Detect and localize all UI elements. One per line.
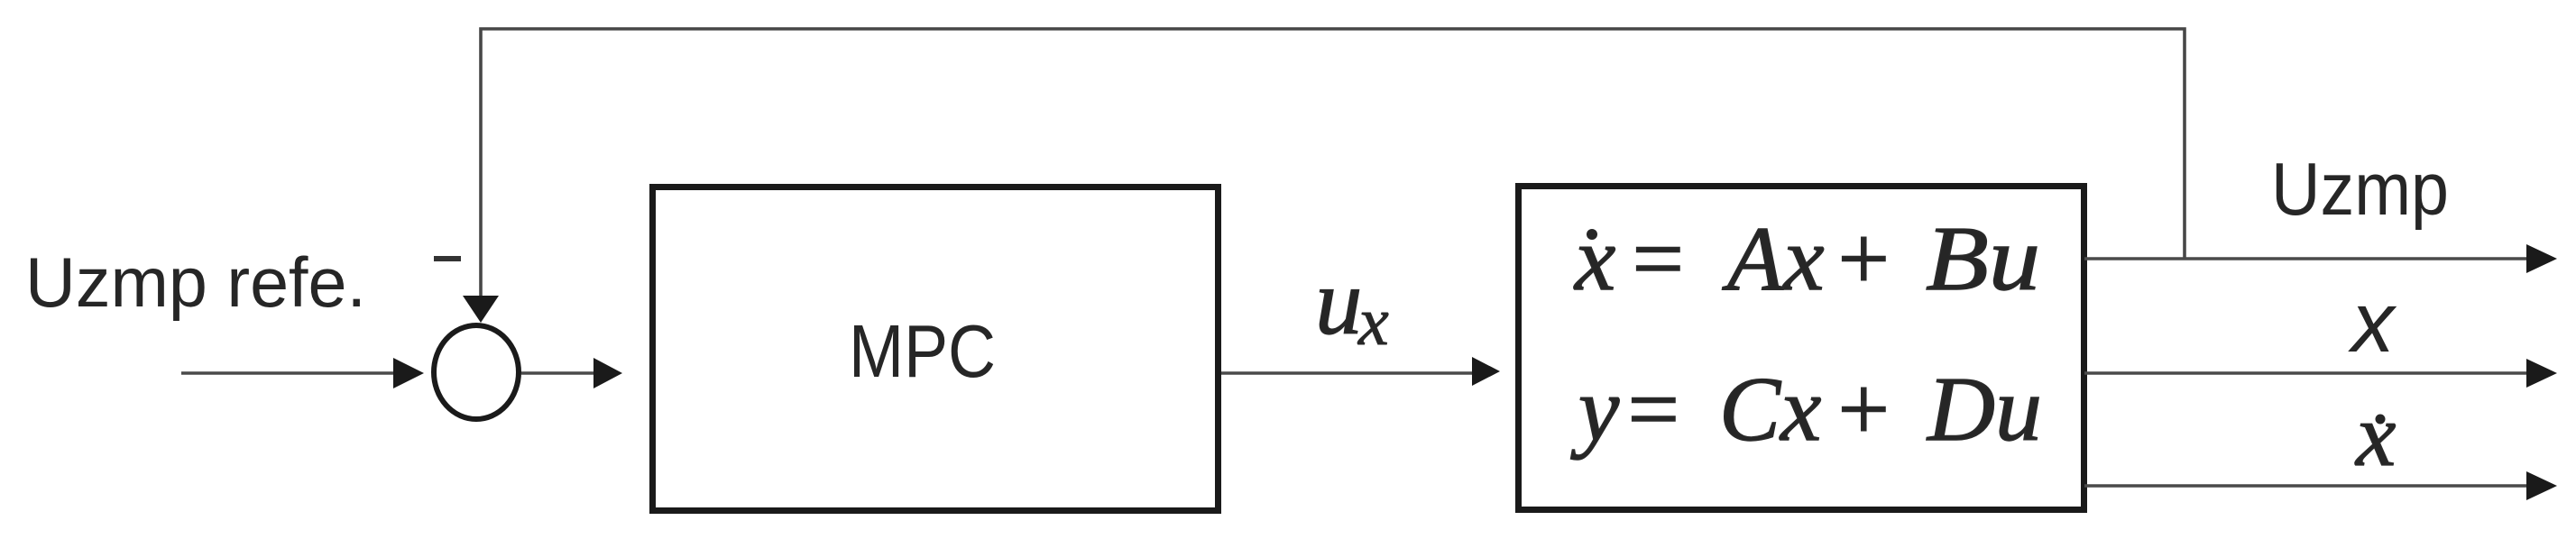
svg-text:x=Ax+Bu: x=Ax+Bu: [1573, 208, 2040, 310]
svg-text:Uzmp: Uzmp: [2271, 147, 2449, 231]
svg-text:x: x: [2354, 385, 2396, 485]
svg-text:Uzmp refe.: Uzmp refe.: [25, 242, 366, 322]
svg-text:MPC: MPC: [849, 309, 996, 393]
svg-text:x: x: [2348, 275, 2397, 370]
svg-text:x: x: [1357, 284, 1389, 360]
svg-text:u: u: [1315, 249, 1363, 354]
svg-text:y=Cx+Du: y=Cx+Du: [1570, 359, 2042, 461]
